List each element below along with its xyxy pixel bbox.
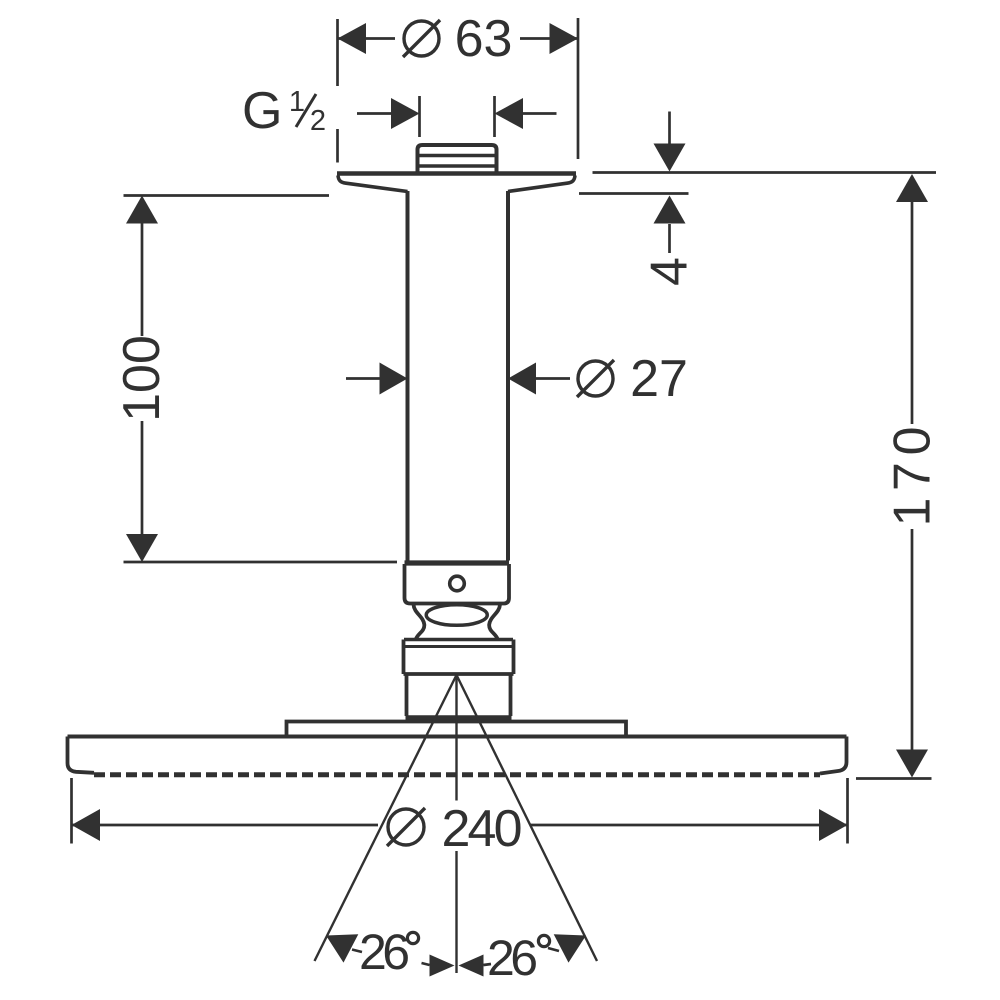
dim100 bottom ext xyxy=(124,561,398,564)
label 1/2 denominator xyxy=(311,110,324,130)
collar screw circle xyxy=(450,576,465,591)
arrow dia63 right xyxy=(550,23,579,54)
svg-text:100: 100 xyxy=(113,335,171,422)
flange right underside xyxy=(508,176,575,192)
step plate xyxy=(287,722,627,737)
svg-text:G: G xyxy=(242,82,282,140)
dim4 upper line xyxy=(668,112,671,147)
head left edge xyxy=(68,737,95,773)
ext line dia63 left upper xyxy=(336,19,339,86)
G1/2 ext right xyxy=(493,96,496,137)
nipple thread line 2 xyxy=(418,164,497,167)
svg-text:26: 26 xyxy=(359,924,410,980)
dia240 dim line right xyxy=(530,824,848,827)
arrow dia63 left xyxy=(338,23,367,54)
ceiling long ext line xyxy=(593,171,937,174)
pipe left edge xyxy=(406,191,410,561)
flange bottom short ext line xyxy=(579,192,689,195)
arrow dia27 pointing left xyxy=(508,363,536,395)
ext line dia63 right xyxy=(577,18,580,159)
spray right line xyxy=(457,675,598,961)
dia27 leader left xyxy=(346,377,380,380)
dim4 lower line xyxy=(668,224,671,253)
26 left inner stub xyxy=(422,963,430,965)
nut left side xyxy=(402,640,406,675)
spray center line lower xyxy=(455,851,457,973)
arrow dim4 up xyxy=(654,196,686,224)
nut top band line 2 xyxy=(404,645,514,648)
arrow dim100 down xyxy=(126,534,158,562)
arrow G1/2 pointing right xyxy=(391,98,420,129)
arrow 26 left outer xyxy=(326,934,358,962)
spray center line upper xyxy=(455,676,457,801)
svg-text:4: 4 xyxy=(641,257,699,286)
head top edge xyxy=(68,735,847,739)
nozzle dashed face xyxy=(94,772,820,777)
flange left underside xyxy=(338,176,408,192)
dim170 bottom ext xyxy=(856,777,932,780)
svg-text:63: 63 xyxy=(455,10,513,68)
26 right inner stub xyxy=(484,964,492,965)
collar body xyxy=(405,564,510,604)
svg-text:26: 26 xyxy=(487,930,538,986)
dim100 top ext xyxy=(124,194,330,197)
G1/2 ext left xyxy=(418,96,421,137)
arrow dim170 up xyxy=(896,174,928,202)
dim170 line upper xyxy=(911,200,914,424)
arrow dim4 down xyxy=(654,144,686,172)
label dia27 symbol xyxy=(577,360,614,397)
label dia63 symbol xyxy=(403,20,440,57)
collar thick top edge xyxy=(405,560,510,565)
head right edge xyxy=(820,737,847,774)
dim line dia63 right xyxy=(520,37,578,40)
arrow 26 right inner xyxy=(459,955,484,977)
ball joint left profile xyxy=(414,605,425,640)
dim100 line lower xyxy=(141,421,144,534)
ball joint right profile xyxy=(489,605,500,640)
arrow dia240 left xyxy=(72,809,101,841)
nut right side xyxy=(512,640,516,675)
26 right outer stub xyxy=(548,948,559,951)
arrow dia240 right xyxy=(819,809,848,841)
arrow dim100 up xyxy=(126,196,158,224)
ext line dia63 left lower xyxy=(336,129,339,163)
dia240 ext right xyxy=(846,778,849,844)
dia240 dim line left xyxy=(72,824,379,827)
dia27 leader right xyxy=(536,377,570,380)
flange top edge xyxy=(337,171,576,176)
label 1/2 numerator xyxy=(291,91,304,111)
arrow 26 left inner xyxy=(430,955,455,977)
label 1/2 slash xyxy=(296,94,316,127)
label dia240 symbol xyxy=(387,808,425,846)
nipple G1/2 thread body xyxy=(418,145,497,173)
dim line dia63 left xyxy=(338,37,396,40)
G1/2 leader right xyxy=(522,112,557,115)
dia240 ext left xyxy=(70,778,73,844)
svg-text:27: 27 xyxy=(630,350,688,408)
arrow dia27 pointing right xyxy=(380,363,408,395)
cylinder left side xyxy=(405,674,409,716)
cylinder thick bottom xyxy=(406,715,512,721)
svg-text:170: 170 xyxy=(884,427,942,527)
arrow 26 right outer xyxy=(554,934,586,962)
cylinder right side xyxy=(509,674,513,716)
dim170 line lower xyxy=(911,529,914,750)
pipe right edge xyxy=(506,191,510,561)
nut bottom line xyxy=(404,672,514,676)
ball ellipse xyxy=(426,605,487,626)
G1/2 leader left xyxy=(357,112,392,115)
arrow G1/2 pointing left xyxy=(495,98,524,129)
arrow dim170 down xyxy=(896,750,928,778)
spray left line xyxy=(315,675,457,961)
26 left outer stub xyxy=(352,950,362,953)
dim100 line upper xyxy=(141,222,144,336)
svg-text:240: 240 xyxy=(442,800,523,858)
nipple thread line 1 xyxy=(418,154,497,157)
nut top band line 1 xyxy=(404,638,513,641)
